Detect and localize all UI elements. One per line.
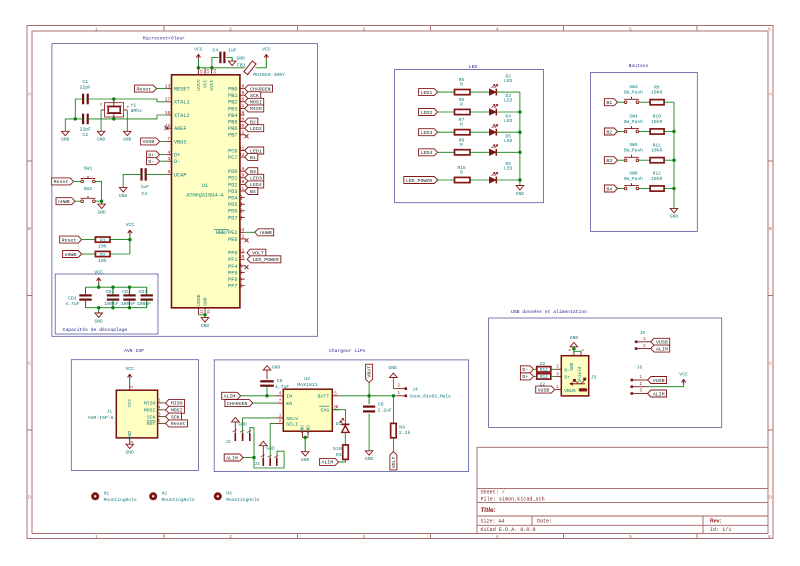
U2 right pins: [332, 395, 339, 397]
svg-text:VOLT: VOLT: [391, 456, 397, 468]
svg-text:23: 23: [201, 309, 205, 313]
connector J1 AVR-ISP-6 body: [116, 390, 157, 438]
svg-text:AREF: AREF: [174, 126, 186, 132]
svg-text:BATT: BATT: [318, 394, 330, 400]
wire R8 to D5: [470, 151, 489, 153]
no-connect PE6: [245, 238, 249, 242]
wire R3 to ALIM: [339, 459, 346, 462]
svg-text:RESET: RESET: [174, 87, 190, 93]
svg-text:VUSB: VUSB: [653, 378, 665, 384]
global label B1: [245, 154, 258, 161]
svg-text:D+: D+: [522, 374, 528, 380]
wire D+ to R14: [534, 375, 537, 377]
resistor R2: [95, 251, 110, 256]
svg-text:VCC: VCC: [679, 371, 688, 377]
LED D3: [489, 109, 496, 115]
capacitor CD3: [129, 287, 131, 295]
global label ALIM at J6: [648, 390, 667, 397]
power VCC decoupling: [97, 278, 101, 283]
svg-text:R: R: [460, 82, 463, 88]
global label VUSB at J6: [648, 377, 667, 384]
global label LED3: [419, 129, 438, 136]
global label LED3: [245, 174, 264, 181]
svg-text:LED_POWER: LED_POWER: [406, 178, 432, 184]
global label VUSB at J9: [651, 338, 670, 345]
svg-text:R14: R14: [540, 375, 548, 380]
global label B4: [245, 188, 258, 195]
svg-text:PF0: PF0: [228, 251, 237, 257]
global label LED_POWER: [247, 256, 281, 263]
svg-text:C: C: [28, 361, 31, 367]
svg-text:LED2: LED2: [421, 110, 433, 116]
IC U2 MAX1811 body: [283, 389, 332, 431]
junction C1C2: [74, 117, 77, 120]
svg-text:GND: GND: [97, 209, 106, 215]
svg-text:PE6: PE6: [228, 237, 237, 243]
svg-text:Conn_01x02_Male: Conn_01x02_Male: [410, 393, 452, 399]
svg-text:UCAP: UCAP: [174, 172, 186, 178]
svg-text:VBAT: VBAT: [366, 366, 372, 378]
svg-text:SW_Push: SW_Push: [624, 148, 644, 154]
svg-text:J3: J3: [254, 461, 260, 467]
wire VUSB to VBUS: [160, 140, 167, 142]
svg-text:B: B: [28, 226, 31, 232]
svg-text:CHG: CHG: [320, 408, 329, 414]
block box decoupling caps: [55, 274, 158, 334]
svg-text:Id: 1/1: Id: 1/1: [710, 527, 731, 533]
U1 left pins: [166, 88, 171, 90]
svg-text:41: 41: [239, 248, 245, 254]
wire LED_POWER to R15: [438, 179, 455, 181]
svg-text:GND: GND: [301, 457, 310, 463]
global label MOSI at J1: [166, 406, 185, 413]
junctions LED bus: [518, 110, 521, 113]
wire D5 to bus: [496, 151, 520, 153]
svg-text:XTAL2: XTAL2: [174, 113, 190, 119]
wire VBAT: [368, 383, 370, 396]
resistor R7: [455, 130, 471, 135]
svg-text:MountingHole: MountingHole: [104, 497, 137, 503]
global label ALIM at R3: [320, 458, 339, 465]
wire C3 to UCAP: [146, 173, 167, 175]
svg-text:10kR: 10kR: [651, 90, 662, 96]
gnd J1: [126, 444, 134, 448]
gnd U1: [204, 315, 206, 318]
svg-text:GND: GND: [570, 335, 579, 341]
svg-text:UGND: UGND: [196, 294, 202, 306]
svg-text:SCK: SCK: [147, 414, 156, 420]
svg-text:CD2: CD2: [106, 289, 115, 295]
wire BATT net: [340, 395, 397, 397]
resistor R8: [455, 150, 471, 155]
global label Reset at J1: [166, 420, 188, 427]
svg-text:U2: U2: [304, 376, 310, 382]
svg-text:R11: R11: [653, 142, 662, 148]
svg-text:Chargeur LiPo: Chargeur LiPo: [329, 348, 366, 354]
wire B4 to SW6: [618, 188, 625, 190]
svg-text:VCC: VCC: [125, 366, 134, 372]
global label LED4: [245, 181, 264, 188]
svg-text:SW_Push: SW_Push: [624, 119, 644, 125]
connector J3 pins: [262, 458, 264, 466]
global label VOLT: [390, 452, 397, 470]
svg-text:nHWB: nHWB: [58, 199, 70, 205]
gnd 2: [97, 131, 105, 135]
wire J6 pin2 to VCC: [648, 386, 684, 388]
wire C4 branch: [212, 57, 219, 67]
global label SCK: [245, 92, 261, 99]
svg-text:LED: LED: [504, 98, 513, 104]
gnd J3 pin1: [260, 441, 268, 445]
global label ALIM at J2J3: [224, 454, 243, 461]
svg-text:H2: H2: [162, 490, 168, 496]
junction R4 branch: [392, 394, 395, 397]
LED D1: [332, 410, 345, 422]
wire D4 to bus: [496, 131, 520, 133]
wire R13 to J5: [551, 368, 556, 370]
power VCC pullups: [128, 230, 132, 235]
wire LED gnd bus: [519, 92, 521, 185]
svg-text:6: 6: [768, 534, 771, 540]
svg-text:D-: D-: [174, 159, 180, 165]
junction VCC pins: [197, 66, 200, 69]
svg-text:SW4: SW4: [629, 114, 638, 120]
wire C6 to gnd: [368, 414, 370, 451]
svg-text:PB4: PB4: [228, 113, 237, 119]
gnd decoupling: [98, 308, 100, 313]
wire R2 to VCC: [110, 240, 130, 254]
svg-text:SW6: SW6: [629, 171, 638, 177]
wire VCC rail to FB1: [198, 67, 244, 69]
global label LED1: [419, 89, 438, 96]
J1 VCC pin: [129, 385, 131, 391]
svg-text:nHWB: nHWB: [260, 230, 272, 236]
connector J5 USB body: [561, 356, 588, 396]
wire Reset to R1: [82, 239, 96, 241]
mounting hole H3: [214, 492, 222, 500]
no-connect PB7: [245, 134, 249, 138]
svg-text:GND: GND: [119, 193, 128, 199]
global label LED4: [419, 149, 438, 156]
svg-text:GND: GND: [306, 425, 311, 433]
global label B3 btn: [604, 157, 617, 164]
svg-text:37: 37: [239, 276, 244, 282]
svg-text:PF5: PF5: [228, 270, 237, 276]
svg-text:3: 3: [363, 26, 366, 32]
svg-text:510: 510: [333, 446, 342, 452]
svg-text:D-: D-: [522, 367, 528, 373]
wire R6 to D3: [470, 111, 489, 113]
svg-text:5: 5: [629, 534, 632, 540]
svg-text:VBUS: VBUS: [174, 139, 186, 145]
resistor R5: [455, 90, 471, 95]
svg-text:2.2k: 2.2k: [399, 430, 411, 436]
wire U1 ground: [198, 314, 205, 316]
svg-text:GND: GND: [516, 191, 525, 197]
junction crystal top: [112, 97, 115, 100]
svg-text:GND: GND: [237, 56, 246, 62]
resistor R13: [537, 367, 551, 372]
power VCC right of FB1: [264, 54, 268, 59]
svg-text:A: A: [769, 92, 772, 98]
gnd 1: [62, 131, 70, 135]
gnd SW: [101, 201, 103, 204]
wire CHARGEN to EN: [253, 402, 276, 404]
svg-text:PD0: PD0: [228, 169, 237, 175]
svg-text:R2: R2: [100, 252, 106, 258]
wire LED3 to R7: [438, 131, 455, 133]
svg-text:10k: 10k: [98, 244, 107, 250]
junction U2 gnd: [304, 436, 307, 439]
svg-text:Size: A4: Size: A4: [481, 518, 505, 524]
junction R1R2 VCC: [128, 238, 131, 241]
svg-text:R: R: [460, 122, 463, 128]
wire B3 to SW5: [618, 159, 625, 161]
svg-text:SW_Push: SW_Push: [624, 176, 644, 182]
junction U1 gnd: [203, 313, 206, 316]
global label MOSI: [245, 98, 264, 105]
svg-text:4: 4: [496, 26, 499, 32]
svg-text:PF4: PF4: [228, 264, 237, 270]
svg-text:J5: J5: [591, 375, 597, 381]
svg-text:25: 25: [239, 195, 244, 201]
svg-text:GND: GND: [123, 137, 132, 143]
capacitor C6: [368, 396, 370, 404]
wire D2 to bus: [496, 91, 520, 93]
wire R14 to J5: [551, 375, 556, 377]
wire XTAL1 net: [88, 99, 167, 102]
junction C5 IN: [265, 394, 268, 397]
J1 RST overline: [147, 420, 156, 422]
svg-text:32: 32: [239, 152, 245, 158]
resistor R6: [455, 109, 471, 114]
junctions Boutons bus: [672, 130, 675, 133]
global label D+ at U1: [147, 151, 160, 158]
wire U2 gnd: [303, 437, 309, 439]
wire J1 RST: [163, 422, 166, 424]
svg-text:PD7: PD7: [228, 215, 237, 221]
svg-text:3: 3: [167, 156, 170, 162]
crystal case pin 4 to gnd: [124, 109, 128, 111]
wire Boutons gnd bus: [673, 102, 675, 208]
wire R7 to D4: [470, 131, 489, 133]
global label MISO at J1: [166, 399, 185, 406]
J5 top pins: [573, 351, 575, 355]
svg-text:AVR-ISP-6: AVR-ISP-6: [88, 415, 114, 421]
junction crystal bottom: [112, 117, 115, 120]
svg-text:IN: IN: [286, 394, 292, 400]
global label ALIM at J9: [651, 345, 670, 352]
svg-text:14: 14: [207, 68, 211, 73]
global label MISO: [245, 105, 264, 112]
resistor R3: [343, 445, 349, 460]
junction ALIM J2J3: [252, 456, 255, 459]
svg-text:10kR: 10kR: [651, 176, 662, 182]
svg-text:4,7uF: 4,7uF: [275, 384, 290, 390]
switch SW2: [81, 200, 84, 203]
wire R10 to bus: [664, 131, 674, 133]
capacitor C2: [82, 114, 84, 125]
svg-text:B1: B1: [606, 100, 612, 106]
svg-text:18: 18: [239, 166, 245, 172]
svg-text:SW_Push: SW_Push: [624, 90, 644, 96]
svg-text:R13: R13: [540, 368, 548, 373]
svg-text:GND: GND: [670, 214, 679, 220]
svg-text:USB données et alimentation: USB données et alimentation: [511, 309, 587, 315]
svg-text:36: 36: [239, 283, 244, 289]
resistor R9: [650, 100, 664, 105]
svg-text:4: 4: [167, 149, 170, 155]
svg-text:4.7uF: 4.7uF: [65, 301, 80, 307]
wire D1 to R3: [344, 432, 346, 445]
svg-text:SW3: SW3: [629, 84, 638, 90]
svg-text:H3: H3: [226, 490, 232, 496]
block box Chargeur LiPo: [214, 360, 468, 472]
svg-text:MountingHole: MountingHole: [162, 497, 195, 503]
svg-text:SW5: SW5: [629, 142, 638, 148]
svg-text:LED: LED: [504, 78, 513, 84]
svg-text:ATmega16U4-A: ATmega16U4-A: [186, 192, 224, 198]
svg-text:MH2029-300Y: MH2029-300Y: [253, 72, 285, 78]
global label CHARGEN at U2: [225, 400, 253, 407]
capacitor C4: [219, 52, 221, 64]
power VCC left of C4: [196, 54, 200, 59]
svg-text:VCC: VCC: [126, 222, 135, 228]
svg-text:B4: B4: [606, 186, 612, 192]
svg-text:R1: R1: [100, 237, 106, 243]
svg-text:20: 20: [239, 179, 245, 185]
svg-text:R: R: [460, 170, 463, 176]
svg-text:40: 40: [239, 254, 245, 260]
global label D- at U1: [147, 158, 160, 165]
svg-text:PF1: PF1: [228, 257, 237, 263]
wire SW2 right: [95, 200, 101, 202]
global label Reset at R1: [60, 236, 82, 243]
svg-text:Reset: Reset: [54, 179, 69, 185]
svg-text:LED4: LED4: [421, 150, 433, 156]
wire D-: [160, 160, 167, 162]
wire B2 to SW4: [618, 131, 625, 133]
svg-text:5: 5: [582, 349, 586, 351]
mounting hole H1: [91, 492, 99, 500]
svg-text:D+: D+: [174, 153, 180, 159]
svg-text:C: C: [769, 361, 772, 367]
global label B2: [245, 118, 258, 125]
svg-text:Rev:: Rev:: [710, 519, 722, 525]
svg-text:22: 22: [239, 201, 244, 207]
svg-text:nHWB: nHWB: [65, 252, 77, 258]
svg-text:PD4: PD4: [228, 196, 237, 202]
svg-text:Reset: Reset: [136, 86, 151, 92]
mounting hole H2: [149, 492, 157, 500]
svg-text:10kR: 10kR: [651, 148, 662, 154]
svg-text:PB7: PB7: [228, 133, 237, 139]
gnd 3: [124, 131, 132, 135]
connector J4 pin2: [396, 388, 404, 390]
svg-text:PB6: PB6: [228, 126, 237, 132]
wire J2 pin3 bracket to ALIM: [250, 428, 284, 468]
global label B1 btn: [604, 99, 617, 106]
svg-text:8: 8: [241, 83, 244, 89]
wire J3 pin2 to SELI: [270, 423, 276, 458]
U2 left pins: [276, 395, 283, 397]
svg-text:VCC: VCC: [94, 270, 103, 276]
global label VBAT: [366, 364, 373, 382]
J1 GND pin: [129, 438, 131, 444]
wire nHWB to SW2: [75, 200, 81, 202]
svg-text:28: 28: [239, 110, 245, 116]
svg-text:2: 2: [229, 534, 232, 540]
svg-text:R: R: [460, 102, 463, 108]
global label nHWB at R2: [63, 251, 82, 258]
svg-text:SW2: SW2: [84, 186, 93, 192]
global label B3: [245, 168, 258, 175]
wire SW4 to R10: [638, 131, 650, 133]
svg-text:12: 12: [239, 130, 245, 136]
svg-text:MISO: MISO: [250, 106, 262, 112]
svg-text:GND: GND: [201, 323, 210, 329]
svg-text:PD3: PD3: [228, 189, 237, 195]
wire D3 to bus: [496, 111, 520, 113]
svg-text:SELV: SELV: [286, 416, 298, 422]
gnd C4: [231, 57, 233, 61]
svg-text:LED2: LED2: [250, 126, 262, 132]
svg-text:B3: B3: [606, 158, 612, 164]
wire ALIM junction: [243, 457, 254, 459]
svg-text:CD4: CD4: [138, 289, 147, 295]
svg-text:FB1: FB1: [237, 62, 246, 68]
svg-text:Y1: Y1: [131, 103, 137, 109]
U1 bottom pins UGND GND: [197, 308, 199, 315]
no-connect AREF: [165, 126, 169, 130]
block box LED: [395, 70, 544, 203]
svg-text:5: 5: [629, 26, 632, 32]
svg-text:100nF: 100nF: [104, 301, 119, 307]
switch SW6: [624, 187, 627, 190]
svg-text:GND: GND: [97, 137, 106, 143]
U1 top pins UVCC VCC AVCC: [197, 68, 199, 75]
block box AVR ISP: [71, 360, 198, 471]
wire decoupling bottom bus: [86, 307, 147, 309]
svg-text:File: simon.kicad_sch: File: simon.kicad_sch: [481, 496, 545, 502]
svg-text:GND: GND: [95, 318, 104, 324]
svg-text:VCC: VCC: [127, 399, 133, 408]
svg-text:3: 3: [363, 534, 366, 540]
global label LED2: [245, 125, 264, 132]
switch SW4: [624, 130, 627, 133]
resistor R15: [455, 177, 471, 182]
svg-text:D: D: [769, 495, 772, 501]
resistor R4: [391, 423, 397, 437]
svg-text:AVCC: AVCC: [209, 79, 215, 91]
svg-text:21: 21: [201, 68, 205, 73]
resistor R10: [650, 129, 664, 134]
wire XTAL2 net: [88, 115, 167, 119]
no-connect PF4: [245, 265, 249, 269]
wire C5 to IN net: [266, 386, 268, 396]
gnd C6: [365, 451, 373, 455]
svg-text:J1: J1: [106, 409, 112, 415]
svg-text:42: 42: [165, 123, 171, 129]
svg-text:PB3: PB3: [228, 106, 237, 112]
svg-text:HWB/PE2: HWB/PE2: [216, 230, 238, 236]
svg-text:Reset: Reset: [62, 237, 77, 243]
wire decoupling top bus: [86, 286, 147, 288]
svg-text:100nF: 100nF: [121, 301, 136, 307]
svg-text:27: 27: [239, 214, 244, 220]
wire D- to R13: [534, 368, 537, 370]
wire D6 to bus: [496, 179, 520, 181]
